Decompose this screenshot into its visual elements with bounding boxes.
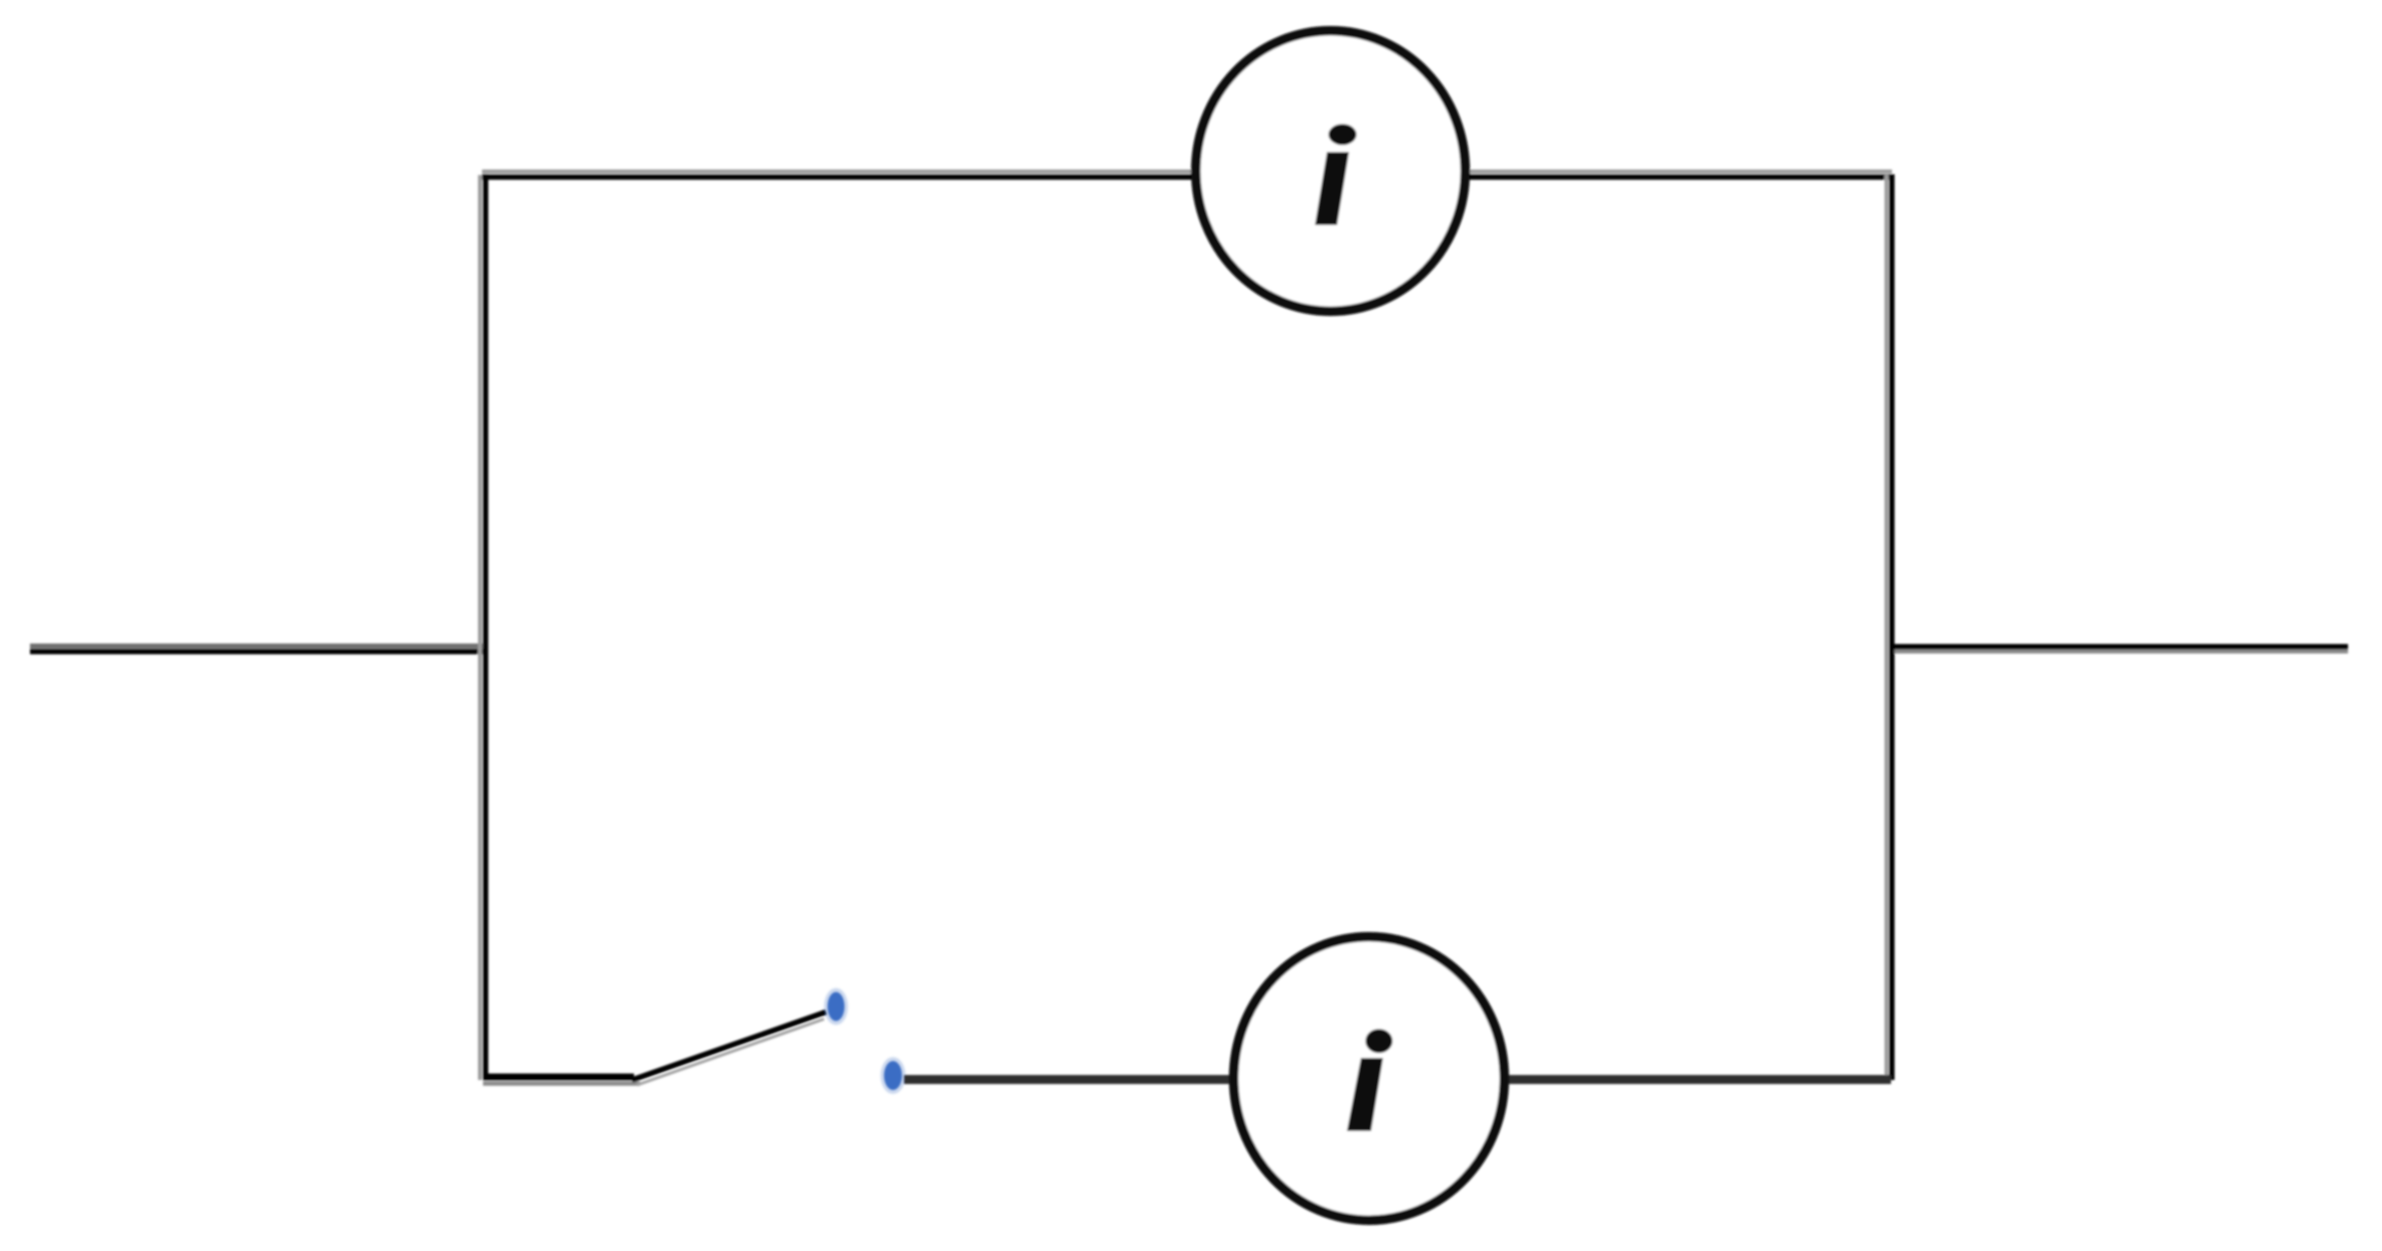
wire right lead	[1890, 644, 2348, 650]
wire top echo	[482, 170, 1892, 174]
ammeter A1 label i stem	[1315, 152, 1349, 225]
ammeter A2 label i dot	[1366, 1029, 1393, 1053]
ammeter A2 label i stem	[1347, 1058, 1383, 1131]
switch contact dot B	[884, 1061, 902, 1090]
switch S1 lever	[632, 1012, 826, 1080]
wire left vertical echo	[478, 175, 482, 1080]
wire bottom right run (switch to ammeter to corner)	[904, 1075, 1891, 1084]
ammeter A1 (top) body	[1196, 31, 1465, 311]
switch S1 lever echo	[637, 1019, 824, 1085]
wire left vertical	[483, 174, 489, 1079]
wire right vertical	[1889, 174, 1895, 1080]
wire left lead	[30, 649, 487, 655]
wire top	[482, 174, 1892, 180]
switch contact dot halo A	[824, 988, 848, 1025]
switch contact dot A	[828, 992, 845, 1021]
wire right vertical echo	[1885, 175, 1889, 1078]
wire right lead echo	[1890, 650, 2348, 654]
switch contact dot halo B	[881, 1057, 906, 1094]
wire left lead echo	[30, 644, 485, 649]
wire bottom left echo	[483, 1081, 640, 1086]
ammeter A2 (bottom) body	[1234, 937, 1505, 1220]
ammeter A1 label i dot	[1329, 124, 1357, 145]
wire bottom left (to switch)	[483, 1074, 634, 1081]
